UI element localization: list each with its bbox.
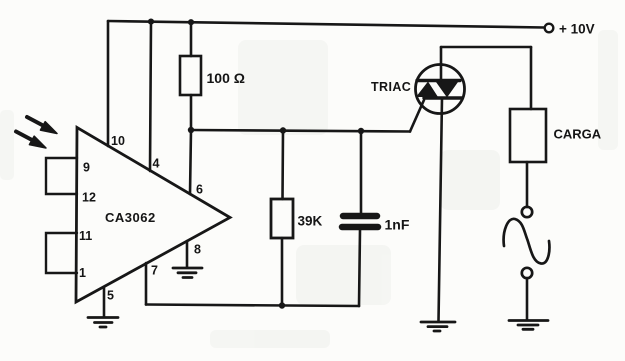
svg-text:12: 12 xyxy=(82,191,96,205)
svg-text:100 Ω: 100 Ω xyxy=(207,70,245,86)
wire node to capacitor C1 xyxy=(360,131,363,213)
junction node R2 bottom xyxy=(279,302,285,308)
triac Q1 body xyxy=(416,65,465,114)
svg-text:TRIAC: TRIAC xyxy=(371,80,411,94)
capacitor C1 plate bottom xyxy=(342,224,378,231)
junction node at R2 top xyxy=(280,127,286,133)
svg-text:10: 10 xyxy=(111,134,125,148)
triac Q1 right triangle (points down) xyxy=(436,82,458,98)
svg-text:CA3062: CA3062 xyxy=(105,210,156,225)
junction node at C1 top xyxy=(358,128,364,134)
wire pin 5 to ground xyxy=(103,287,106,317)
svg-text:+ 10V: + 10V xyxy=(559,22,595,37)
triac Q1 bottom bar xyxy=(424,96,462,99)
wire R2 to bottom rail xyxy=(281,238,284,305)
op-amp U1 CA3062 triangle xyxy=(76,128,230,303)
svg-text:4: 4 xyxy=(153,157,160,171)
svg-text:6: 6 xyxy=(196,183,203,197)
terminal +10V xyxy=(545,24,554,33)
capacitor C1 plate top xyxy=(343,213,377,220)
svg-text:1nF: 1nF xyxy=(385,217,410,233)
wire gate rail horizontal xyxy=(191,130,410,132)
svg-text:CARGA: CARGA xyxy=(554,127,602,142)
svg-text:9: 9 xyxy=(83,161,90,175)
wire C1 to bottom rail xyxy=(359,230,360,306)
wire rail to pin 10 xyxy=(107,21,110,146)
load box CARGA xyxy=(510,109,546,162)
ground at mains xyxy=(509,321,548,330)
wire pin 8 to ground xyxy=(186,241,189,267)
wire +10V top rail xyxy=(108,21,544,28)
wire bottom rail xyxy=(146,305,359,307)
ground at pin 8 xyxy=(173,268,202,278)
wire R1 to gate node xyxy=(190,95,193,130)
light arrow upper xyxy=(27,117,57,134)
svg-text:5: 5 xyxy=(107,289,114,303)
triac Q1 top bar xyxy=(417,79,460,82)
junction node at pin4 riser xyxy=(148,19,154,25)
wire down to carga xyxy=(530,47,533,109)
triac Q1 left triangle (points up) xyxy=(416,82,438,98)
photodiode window pins 9-12 xyxy=(46,158,77,194)
ground at triac xyxy=(421,322,455,331)
junction node at R1 riser xyxy=(188,19,194,25)
wire node to resistor R2 xyxy=(281,131,284,200)
wire rail to pin 4 xyxy=(150,22,151,171)
svg-text:11: 11 xyxy=(79,229,92,243)
svg-text:7: 7 xyxy=(151,264,158,278)
wire triac to carga horizontal xyxy=(441,46,531,49)
wire rail to resistor R1 xyxy=(190,22,193,56)
wire carga to socket xyxy=(526,162,529,207)
wire gate diagonal to triac xyxy=(410,100,424,132)
socket terminal lower xyxy=(522,268,532,278)
wire triac MT2 stub xyxy=(440,47,443,80)
svg-text:8: 8 xyxy=(194,243,201,257)
junction node R1 / pin 6 xyxy=(188,127,194,133)
wire node to pin 6 xyxy=(190,130,191,194)
svg-text:1: 1 xyxy=(79,266,86,280)
socket terminal upper xyxy=(522,207,532,217)
photodiode window pins 11-1 xyxy=(46,233,77,273)
wire pin 7 down xyxy=(145,263,148,305)
light arrow lower xyxy=(16,132,46,149)
resistor R2 39K xyxy=(271,199,293,238)
resistor R1 100 ohm xyxy=(180,56,201,95)
svg-text:39K: 39K xyxy=(298,214,323,229)
wire triac MT1 to ground xyxy=(439,98,443,321)
ground at pin 5 xyxy=(88,318,118,328)
wire socket to ground xyxy=(526,278,529,320)
AC mains sine symbol xyxy=(504,219,550,264)
